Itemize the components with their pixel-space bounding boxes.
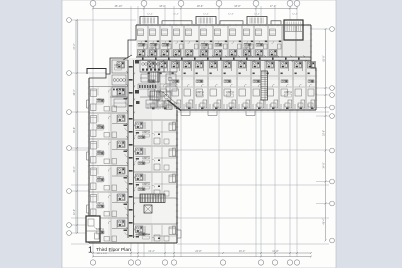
svg-text:UNIT A: UNIT A bbox=[284, 91, 292, 94]
stair run (top wing, vertical hatch) bbox=[261, 71, 268, 100]
window mullion ticks (right end walls) bbox=[310, 28, 317, 106]
svg-text:63'-8": 63'-8" bbox=[322, 55, 325, 61]
svg-text:UNIT A: UNIT A bbox=[201, 47, 209, 50]
svg-text:12'-4": 12'-4" bbox=[173, 14, 179, 16]
diagonal wall (corner unit) bbox=[123, 55, 132, 60]
entry stair bump 2 (top facade) bbox=[196, 17, 216, 25]
svg-text:UNIT A: UNIT A bbox=[96, 228, 104, 231]
svg-text:UNIT A: UNIT A bbox=[142, 131, 150, 134]
svg-text:12'-4": 12'-4" bbox=[292, 14, 298, 16]
svg-text:35'-8": 35'-8" bbox=[73, 127, 76, 133]
svg-text:30'-8": 30'-8" bbox=[322, 130, 325, 136]
bump on left wing right edge bbox=[177, 230, 181, 238]
stair tower (top right) bbox=[284, 20, 303, 40]
grid bubbles left column bbox=[67, 18, 72, 236]
svg-text:18'-0": 18'-0" bbox=[159, 4, 166, 8]
elevator shaft (left wing) bbox=[144, 205, 152, 213]
svg-text:UNIT A: UNIT A bbox=[96, 176, 104, 179]
exterior wall: left wing left edge bbox=[88, 78, 89, 243]
stair core (left wing lower, hatched) bbox=[140, 194, 165, 203]
unit partitions (left wing west column) bbox=[89, 87, 128, 219]
svg-text:UNIT A: UNIT A bbox=[196, 91, 204, 94]
sub-dimension texts above facade bbox=[147, 14, 298, 16]
svg-text:27'-2": 27'-2" bbox=[73, 43, 76, 49]
corridor (top wing, double wall) bbox=[136, 57, 311, 60]
svg-text:1: 1 bbox=[88, 245, 93, 255]
stair run B (corner) bbox=[150, 91, 160, 100]
horizontal grid stubs (right side) bbox=[316, 88, 329, 204]
corridor (left wing, double wall) bbox=[128, 60, 134, 238]
unit interiors upper row (beds, baths, kitchens) bbox=[137, 29, 281, 57]
unit partitions (left wing east column) bbox=[134, 120, 178, 224]
svg-text:UNIT A: UNIT A bbox=[149, 47, 157, 50]
window mullion ticks (courtyard edge) bbox=[176, 115, 178, 235]
svg-text:19'-0": 19'-0" bbox=[239, 249, 246, 253]
window mullion ticks (top wing bottom) bbox=[184, 109, 310, 111]
dimension string bottom bbox=[92, 249, 312, 258]
grid bubbles bottom row bbox=[90, 260, 299, 265]
horizontal grid stubs (left side) bbox=[71, 148, 89, 233]
svg-text:UNIT A: UNIT A bbox=[96, 150, 104, 153]
svg-text:13'-4": 13'-4" bbox=[148, 249, 155, 253]
svg-text:12'-4": 12'-4" bbox=[203, 14, 209, 16]
exterior wall: top wing left step bbox=[128, 25, 136, 58]
canopy bump (left wing top) bbox=[87, 69, 106, 79]
svg-text:38'-4": 38'-4" bbox=[73, 89, 76, 95]
secondary facade ledges bbox=[162, 21, 281, 25]
unit partitions (top wing upper row) bbox=[148, 26, 296, 57]
svg-text:UNIT A: UNIT A bbox=[96, 202, 104, 205]
exterior wall: right end of top wing bbox=[311, 25, 316, 110]
svg-text:UNIT A: UNIT A bbox=[96, 98, 104, 101]
grid bubbles right column bbox=[330, 27, 335, 243]
exterior wall: left wing bottom bbox=[89, 242, 177, 243]
unit number labels bbox=[96, 47, 292, 239]
stair run A (corner) bbox=[149, 72, 159, 82]
svg-text:UNIT A: UNIT A bbox=[243, 47, 251, 50]
svg-text:12'-4": 12'-4" bbox=[254, 14, 260, 16]
svg-text:UNIT A: UNIT A bbox=[226, 91, 234, 94]
svg-text:UNIT A: UNIT A bbox=[156, 91, 164, 94]
building footprint fill (left wing) bbox=[89, 58, 177, 243]
exterior wall: left wing top connection bbox=[106, 58, 128, 74]
unit interiors west column (beds, baths, kitchens) bbox=[91, 88, 129, 243]
svg-text:14'-8": 14'-8" bbox=[272, 249, 279, 253]
bold room at wing bottom-left (bump-out) bbox=[86, 216, 100, 242]
svg-text:12'-4": 12'-4" bbox=[147, 14, 153, 16]
horizontal grid stub (facade right) bbox=[311, 28, 329, 30]
svg-text:24'-8": 24'-8" bbox=[195, 249, 202, 253]
svg-text:40'-4": 40'-4" bbox=[73, 166, 76, 172]
svg-text:12'-4": 12'-4" bbox=[228, 14, 234, 16]
bay window bumps (left edge) bbox=[87, 100, 90, 213]
svg-text:Third Floor Plan: Third Floor Plan bbox=[96, 247, 131, 253]
entry stair bump 3 (top facade) bbox=[247, 17, 267, 25]
svg-text:18'-8": 18'-8" bbox=[197, 4, 204, 8]
corner lower rooms bbox=[136, 97, 172, 110]
svg-text:42'-8": 42'-8" bbox=[73, 209, 76, 215]
courtyard chamfer wall bbox=[168, 100, 182, 111]
patio bumps below top wing bbox=[181, 111, 255, 116]
corridor doors (top wing) bbox=[142, 56, 307, 62]
window mullion ticks (facade) bbox=[140, 24, 308, 26]
title: 1 Third Floor Plan bbox=[88, 245, 131, 256]
svg-text:48'-10": 48'-10" bbox=[114, 4, 122, 8]
building footprint fill (top wing upper) bbox=[136, 25, 311, 58]
exterior wall: left wing right edge (courtyard side) bbox=[176, 110, 177, 243]
unit partitions (top wing lower row) bbox=[158, 60, 306, 109]
unit interiors lower row (baths, kitchens, beds) bbox=[147, 61, 316, 109]
dimension string right bbox=[322, 28, 326, 242]
unit interiors east column (baths, beds, kitchens) bbox=[134, 121, 176, 242]
svg-text:17'-0": 17'-0" bbox=[270, 4, 277, 8]
drawing sheet bbox=[62, 0, 336, 268]
window mullion ticks (left edge) bbox=[88, 82, 90, 238]
dimension string top bbox=[92, 4, 298, 9]
vertical grid lines bbox=[93, 6, 297, 257]
svg-text:UNIT A: UNIT A bbox=[114, 64, 122, 67]
corner common rooms bbox=[110, 60, 177, 107]
horizontal grid lines bbox=[71, 73, 329, 244]
corridor doors (left wing) bbox=[127, 66, 136, 237]
svg-text:UNIT A: UNIT A bbox=[96, 124, 104, 127]
svg-text:34'-8": 34'-8" bbox=[322, 162, 325, 168]
exterior wall: top facade bbox=[136, 24, 311, 25]
building footprint fill (top wing lower) bbox=[146, 58, 316, 110]
dimension string left bbox=[73, 19, 78, 234]
horizontal grid stub (top left) bbox=[71, 19, 136, 21]
svg-text:UNIT A: UNIT A bbox=[142, 157, 150, 160]
grid bubbles top row bbox=[90, 1, 300, 7]
svg-text:1/8" = 1'-0": 1/8" = 1'-0" bbox=[97, 253, 108, 255]
svg-text:18'-8": 18'-8" bbox=[234, 4, 241, 8]
exterior wall: top wing bottom (courtyard) bbox=[181, 109, 316, 110]
entry stair bump 1 (top facade) bbox=[140, 17, 158, 25]
svg-text:UNIT A: UNIT A bbox=[142, 233, 150, 236]
svg-text:48'-4": 48'-4" bbox=[322, 218, 325, 224]
svg-text:UNIT A: UNIT A bbox=[142, 183, 150, 186]
